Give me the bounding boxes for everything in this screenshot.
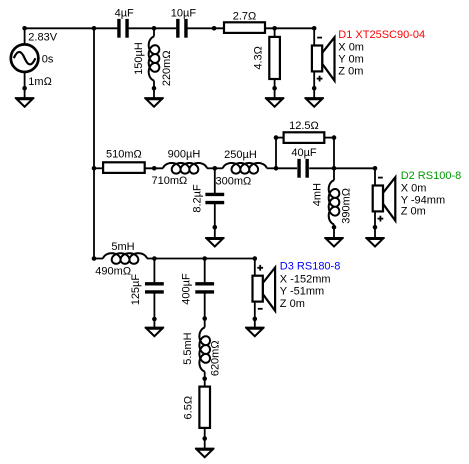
svg-text:400µF: 400µF bbox=[180, 273, 192, 305]
ground at D3 bbox=[245, 317, 264, 336]
resistor 6.5ohm bbox=[183, 387, 210, 428]
wire: node to 6.5ohm bbox=[204, 379, 206, 387]
svg-text:4.3Ω: 4.3Ω bbox=[253, 46, 265, 70]
svg-text:X -152mm: X -152mm bbox=[280, 273, 331, 285]
ground at 6.5ohm bbox=[195, 438, 214, 457]
svg-text:Z 0m: Z 0m bbox=[280, 298, 305, 310]
svg-text:Z 0m: Z 0m bbox=[401, 206, 426, 218]
wire: middle rail to 4mH bbox=[333, 168, 335, 180]
inductor 5.5mH (620mohm) bbox=[182, 328, 222, 377]
inductor 250uH (300mohm) bbox=[216, 149, 267, 188]
inductor 4mH (390mohm) bbox=[311, 180, 352, 224]
wire: bottom rail to 400uF bbox=[204, 259, 206, 283]
wire top rail: 4uF to 10uF bbox=[129, 27, 177, 29]
wire 12.5ohm branch right riser bbox=[333, 138, 335, 169]
svg-text:2.7Ω: 2.7Ω bbox=[233, 11, 257, 23]
wire: 150uH to ground node bbox=[153, 81, 155, 89]
wire feed: top rail down to middle rail bbox=[93, 28, 95, 168]
capacitor 125uF bbox=[130, 274, 164, 306]
svg-text:510mΩ: 510mΩ bbox=[106, 149, 142, 161]
capacitor 10uF bbox=[171, 7, 197, 37]
wire: 6.5ohm to ground node bbox=[204, 428, 206, 439]
svg-text:2.83V: 2.83V bbox=[28, 32, 57, 44]
junction: D2 to ground bbox=[373, 225, 378, 230]
junction: 400uF tap node bbox=[202, 256, 207, 261]
junction: 5mH / 125uF node bbox=[152, 256, 157, 261]
wire: 4.3ohm to ground node bbox=[274, 79, 276, 88]
wire: 8.2uF to ground node bbox=[214, 204, 216, 228]
ground at source bbox=[15, 88, 34, 107]
wire middle rail: 900uH to 250uH node bbox=[207, 167, 215, 169]
wire middle rail: node to 40uF bbox=[276, 167, 297, 169]
junction: 900uH / 8.2uF node bbox=[213, 166, 218, 171]
junction: D1 to ground bbox=[312, 86, 317, 91]
svg-text:Y 0m: Y 0m bbox=[338, 54, 363, 66]
wire top rail: 10uF to 2.7ohm bbox=[187, 27, 224, 29]
speaker D2 RS100-8 bbox=[373, 168, 462, 228]
ground at D1 bbox=[305, 88, 324, 107]
svg-text:D2 RS100-8: D2 RS100-8 bbox=[401, 170, 462, 182]
junction: 125uF to ground bbox=[152, 317, 157, 322]
capacitor 8.2uF bbox=[192, 184, 225, 213]
wire bottom rail: 400uF node to D3 bbox=[205, 258, 255, 260]
svg-text:X 0m: X 0m bbox=[401, 182, 427, 194]
svg-text:D1 XT25SC90-04: D1 XT25SC90-04 bbox=[338, 29, 425, 41]
wire feed: middle rail down to bottom rail bbox=[93, 168, 95, 258]
speaker D1 XT25SC90-04 bbox=[312, 28, 425, 88]
wire: bottom rail to 125uF bbox=[153, 259, 155, 283]
wire top rail: source to 4uF bbox=[25, 27, 118, 29]
wire bottom rail: corner to 5mH bbox=[94, 258, 103, 260]
svg-text:Y -51mm: Y -51mm bbox=[280, 286, 324, 298]
svg-text:X 0m: X 0m bbox=[338, 42, 364, 54]
svg-text:150µH: 150µH bbox=[133, 42, 145, 75]
ground at 8.2uF bbox=[205, 227, 224, 246]
junction: 400uF / 5.5mH node bbox=[202, 316, 207, 321]
ground at 125uF bbox=[145, 317, 164, 336]
svg-text:620mΩ: 620mΩ bbox=[210, 340, 222, 376]
wire: 5.5mH to 6.5ohm node bbox=[204, 372, 206, 379]
wire middle rail: node to 250uH bbox=[215, 167, 223, 169]
junction: 6.5ohm to ground bbox=[202, 436, 207, 441]
ground at 4mH bbox=[324, 227, 343, 246]
svg-text:6.5Ω: 6.5Ω bbox=[183, 396, 195, 420]
resistor 2.7ohm bbox=[224, 11, 265, 33]
wire: 400uF to 5.5mH node bbox=[204, 293, 206, 318]
junction: feed tap on middle rail bbox=[92, 166, 97, 171]
wire: 4mH to ground node bbox=[333, 224, 335, 227]
wire 12.5ohm branch left riser bbox=[275, 138, 277, 169]
junction: 8.2uF to ground bbox=[213, 225, 218, 230]
wire top rail: 2.7ohm to D1 bbox=[265, 27, 314, 29]
svg-text:300mΩ: 300mΩ bbox=[216, 176, 252, 188]
wire: node to 5.5mH bbox=[204, 319, 206, 328]
svg-text:900µH: 900µH bbox=[168, 149, 201, 161]
svg-text:8.2µF: 8.2µF bbox=[192, 184, 204, 213]
wire 12.5ohm branch left stub bbox=[276, 137, 284, 139]
wire: 125uF to ground node bbox=[153, 293, 155, 319]
svg-text:220mΩ: 220mΩ bbox=[161, 50, 173, 86]
inductor 5mH (490mohm) bbox=[95, 241, 147, 278]
svg-text:5.5mH: 5.5mH bbox=[182, 332, 194, 364]
ground at 150uH bbox=[144, 88, 163, 107]
svg-text:0s: 0s bbox=[42, 53, 54, 65]
svg-text:1mΩ: 1mΩ bbox=[28, 76, 52, 88]
capacitor 40uF bbox=[291, 147, 317, 178]
junction: 150uH to ground bbox=[152, 86, 157, 91]
svg-text:4mH: 4mH bbox=[311, 183, 323, 206]
voltage source V1 (2.83V, 0s, 1mohm) bbox=[11, 28, 58, 88]
ground at 4.3ohm bbox=[265, 88, 284, 107]
junction: 40uF / 4mH node bbox=[332, 166, 337, 171]
junction: 150uH tap on top rail bbox=[152, 26, 157, 31]
wire middle rail: 510mohm to 900uH bbox=[145, 167, 163, 169]
junction: 510mohm / 900uH node bbox=[152, 166, 157, 171]
resistor 510mohm bbox=[103, 149, 145, 173]
svg-text:D3 RS180-8: D3 RS180-8 bbox=[280, 261, 341, 273]
junction: source to ground bbox=[22, 86, 27, 91]
junction: feed corner on bottom rail bbox=[92, 256, 97, 261]
wire: top rail to 150uH bbox=[153, 28, 155, 36]
junction: D3 to ground bbox=[253, 317, 258, 322]
svg-text:40µF: 40µF bbox=[291, 147, 317, 159]
junction: D2 node bbox=[373, 166, 378, 171]
svg-text:Y -94mm: Y -94mm bbox=[401, 194, 445, 206]
wire middle rail: 40uF to node bbox=[309, 167, 334, 169]
junction: 4.3ohm to ground bbox=[272, 86, 277, 91]
junction: 4mH to ground bbox=[332, 225, 337, 230]
svg-text:710mΩ: 710mΩ bbox=[152, 175, 188, 187]
junction: 12.5ohm right corner bbox=[332, 135, 337, 140]
svg-text:12.5Ω: 12.5Ω bbox=[289, 120, 319, 132]
junction: source node on top rail bbox=[22, 26, 27, 31]
junction: 5.5mH / 6.5ohm node bbox=[202, 376, 207, 381]
svg-text:5mH: 5mH bbox=[111, 241, 134, 253]
svg-text:10µF: 10µF bbox=[171, 7, 197, 19]
junction: 250uH / 12.5ohm node bbox=[274, 166, 279, 171]
speaker D3 RS180-8 bbox=[253, 259, 341, 319]
inductor 900uH (710mohm) bbox=[152, 149, 208, 187]
resistor 4.3ohm bbox=[253, 37, 280, 79]
junction: feed tap on top rail bbox=[92, 26, 97, 31]
junction: D1 node bbox=[312, 26, 317, 31]
ground at D2 bbox=[365, 227, 384, 246]
svg-text:250µH: 250µH bbox=[224, 149, 257, 161]
resistor 12.5ohm bbox=[284, 120, 325, 143]
junction: 12.5ohm left corner bbox=[274, 135, 279, 140]
wire bottom rail: 125uF node to 400uF node bbox=[154, 258, 204, 260]
junction: D3 node bbox=[253, 256, 258, 261]
svg-text:490mΩ: 490mΩ bbox=[95, 266, 131, 278]
wire 12.5ohm branch right stub bbox=[324, 137, 334, 139]
capacitor 400uF bbox=[180, 273, 214, 305]
wire middle rail: node to D2 bbox=[334, 167, 375, 169]
svg-text:Z 0m: Z 0m bbox=[338, 65, 363, 77]
wire: top rail to 4.3ohm bbox=[274, 28, 276, 37]
junction: 10uF / 2.7ohm node bbox=[212, 26, 217, 31]
junction: 2.7ohm / 4.3ohm node bbox=[272, 26, 277, 31]
wire middle rail: feed to 510mohm bbox=[94, 167, 103, 169]
svg-text:390mΩ: 390mΩ bbox=[341, 188, 353, 224]
wire: middle rail to 8.2uF bbox=[214, 168, 216, 193]
inductor 150uH (220mohm) bbox=[133, 37, 173, 87]
svg-text:125µF: 125µF bbox=[130, 274, 142, 306]
wire middle rail: 250uH to node bbox=[267, 167, 276, 169]
capacitor 4uF bbox=[115, 7, 134, 37]
wire bottom rail: 5mH to 125uF node bbox=[147, 258, 154, 260]
svg-text:4µF: 4µF bbox=[115, 7, 134, 19]
